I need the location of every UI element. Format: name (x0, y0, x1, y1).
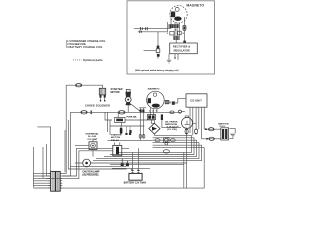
wire pulser to CD unit (169, 98, 186, 103)
wire y85 to choke (66, 85, 102, 88)
lighting coil (small circle inside inset magneto) (175, 7, 179, 11)
CD unit box (186, 94, 207, 107)
CD unit output wires down (190, 107, 204, 139)
main bus wire y112.5 (71, 111, 181, 113)
terminal lug left of CD unit (179, 110, 182, 113)
L wire upper-left (37, 127, 50, 171)
wires right of connector (46, 166, 71, 178)
vertical pill connectors below oil switch (185, 129, 188, 134)
svg-text:(With optional added battery c: (With optional added battery charging co… (135, 69, 179, 72)
inline connector (bus, left) (81, 111, 87, 114)
svg-text:RELAY: RELAY (111, 139, 120, 142)
svg-text:BATTERY 12V 70AH: BATTERY 12V 70AH (124, 182, 146, 185)
condenser charge coil (dark blob left in main magneto) (148, 98, 151, 103)
capacitor C (inset, right of circle) (183, 25, 186, 30)
CDI magneto lead block (dark blob under magneto) (147, 115, 155, 120)
svg-text:MOTOR: MOTOR (111, 91, 120, 94)
battery charge coil (dark oval bottom of main magneto) (152, 104, 160, 108)
starter motor relay (113, 145, 122, 155)
wire y120 to rectifier (105, 112, 154, 123)
magneto flywheel (inset, dashed circle) (170, 6, 187, 23)
svg-text:RECTIFIER &: RECTIFIER & (173, 46, 190, 49)
junction wire under fuse (110, 125, 144, 127)
battery feed terminals (121, 163, 124, 166)
battery charge coil (dark oval bottom inside inset magneto) (174, 17, 181, 21)
spark plug leads (229, 129, 235, 139)
choke solenoid (99, 88, 105, 95)
wire to ignition coil (top) (204, 128, 221, 130)
lighting coil (small circle in main magneto) (153, 93, 156, 96)
junction dot upper right (205, 128, 207, 130)
relay plunger blob (120, 128, 123, 134)
ground symbol (inset, below box) (167, 54, 171, 63)
fuse holder (115, 117, 125, 122)
inset frame box (127, 1, 215, 74)
battery risers (133, 148, 139, 171)
inline connector (209, 137, 215, 140)
ignition coil (221, 128, 229, 140)
main connector (two tall blocks) (51, 171, 56, 191)
inline connector pair (inset left wires) (140, 27, 147, 33)
oil pressure switch (182, 117, 193, 128)
label OIL PRESS SWITCH (165, 122, 179, 132)
left bundle wires into connector (33, 174, 50, 188)
svg-text:MOTOR: MOTOR (111, 137, 120, 139)
svg-text:BATTERY CHARGE COIL: BATTERY CHARGE COIL (70, 46, 104, 49)
wire to ignition coil (bottom) (202, 138, 221, 140)
svg-text:CAUTION LAMP: CAUTION LAMP (82, 170, 99, 173)
starter motor (126, 89, 130, 92)
legend optional parts note (73, 59, 82, 61)
svg-text:(OIL PRESSURE): (OIL PRESSURE) (82, 175, 98, 177)
svg-text:FUSE 20A: FUSE 20A (127, 115, 138, 118)
svg-text:MAGNETO: MAGNETO (148, 87, 160, 90)
small capacitor right of main magneto (172, 101, 175, 104)
connector blocks right of plunger (125, 133, 127, 135)
pulser coil (small component right of main magneto) (165, 100, 169, 103)
small oval connectors on staircase left ends (155, 139, 160, 142)
svg-text:CD UNIT: CD UNIT (190, 99, 202, 103)
svg-text:SL-100: SL-100 (88, 136, 97, 138)
label STARTER MOTOR RELAY (111, 133, 122, 142)
legend coil list (67, 40, 106, 49)
left risers (65, 85, 127, 173)
svg-text:WH: WH (231, 134, 235, 137)
svg-text:Optional parts: Optional parts (83, 58, 103, 62)
inline connector pill (bus, right) (170, 111, 174, 114)
connector plugs below stator bar (170, 31, 174, 35)
wire from lamp line down right (107, 112, 109, 132)
svg-text:STARTER: STARTER (111, 133, 122, 136)
svg-text:UNIVERSAL: UNIVERSAL (86, 132, 100, 135)
svg-text:REGULATOR: REGULATOR (174, 50, 190, 53)
added battery charging coil (inset, hatched box) (173, 36, 179, 40)
caution lamp (83, 159, 91, 167)
verticals feeding bundle from switch lines (43, 144, 113, 179)
neutral switch box (89, 142, 97, 150)
svg-text:-: - (137, 167, 138, 171)
svg-text:(2.1 PSI): (2.1 PSI) (167, 129, 177, 131)
connector pills on magneto-down wires (139, 134, 141, 138)
magneto flywheel (main circle) (147, 91, 165, 109)
rectifier & regulator box (inset) (170, 43, 198, 54)
inline connector (208, 128, 214, 131)
wire blob to rectifier (152, 120, 155, 124)
wires (inset left) with connector pair (134, 18, 171, 59)
rectifier (diamond) (149, 123, 160, 134)
left vertical from mid (32, 147, 34, 187)
staircase bus wires (CD unit loop-back) (51, 135, 204, 188)
wire from regulator down (175, 54, 178, 60)
battery (129, 173, 142, 180)
wire y164 (110, 163, 184, 165)
dark terminal bar right of blob (161, 114, 163, 120)
splice mark on bus (90, 110, 92, 114)
label UNIVERSAL box (86, 132, 100, 141)
svg-text:IGNITION: IGNITION (218, 123, 229, 125)
wires below main magneto (139, 108, 157, 141)
small circle under square connector (165, 142, 168, 145)
inline fuse chain (inset, left of regulator) (157, 46, 160, 49)
wires from inset magneto down (175, 17, 185, 36)
svg-text:CHOKE SOLENOID: CHOKE SOLENOID (85, 105, 110, 108)
stator bar (hatched, below inset magneto) (169, 24, 180, 28)
svg-text:MAGNETO: MAGNETO (187, 3, 205, 7)
dark block on relay feed (129, 130, 131, 133)
inline connector (bus, at fuse) (118, 111, 125, 114)
condenser charge coil (dark blob left inside inset magneto) (171, 12, 175, 18)
inline connector (wire y85) (76, 84, 82, 87)
long vertical wire x184 (183, 152, 185, 188)
legend brace (65, 40, 68, 48)
